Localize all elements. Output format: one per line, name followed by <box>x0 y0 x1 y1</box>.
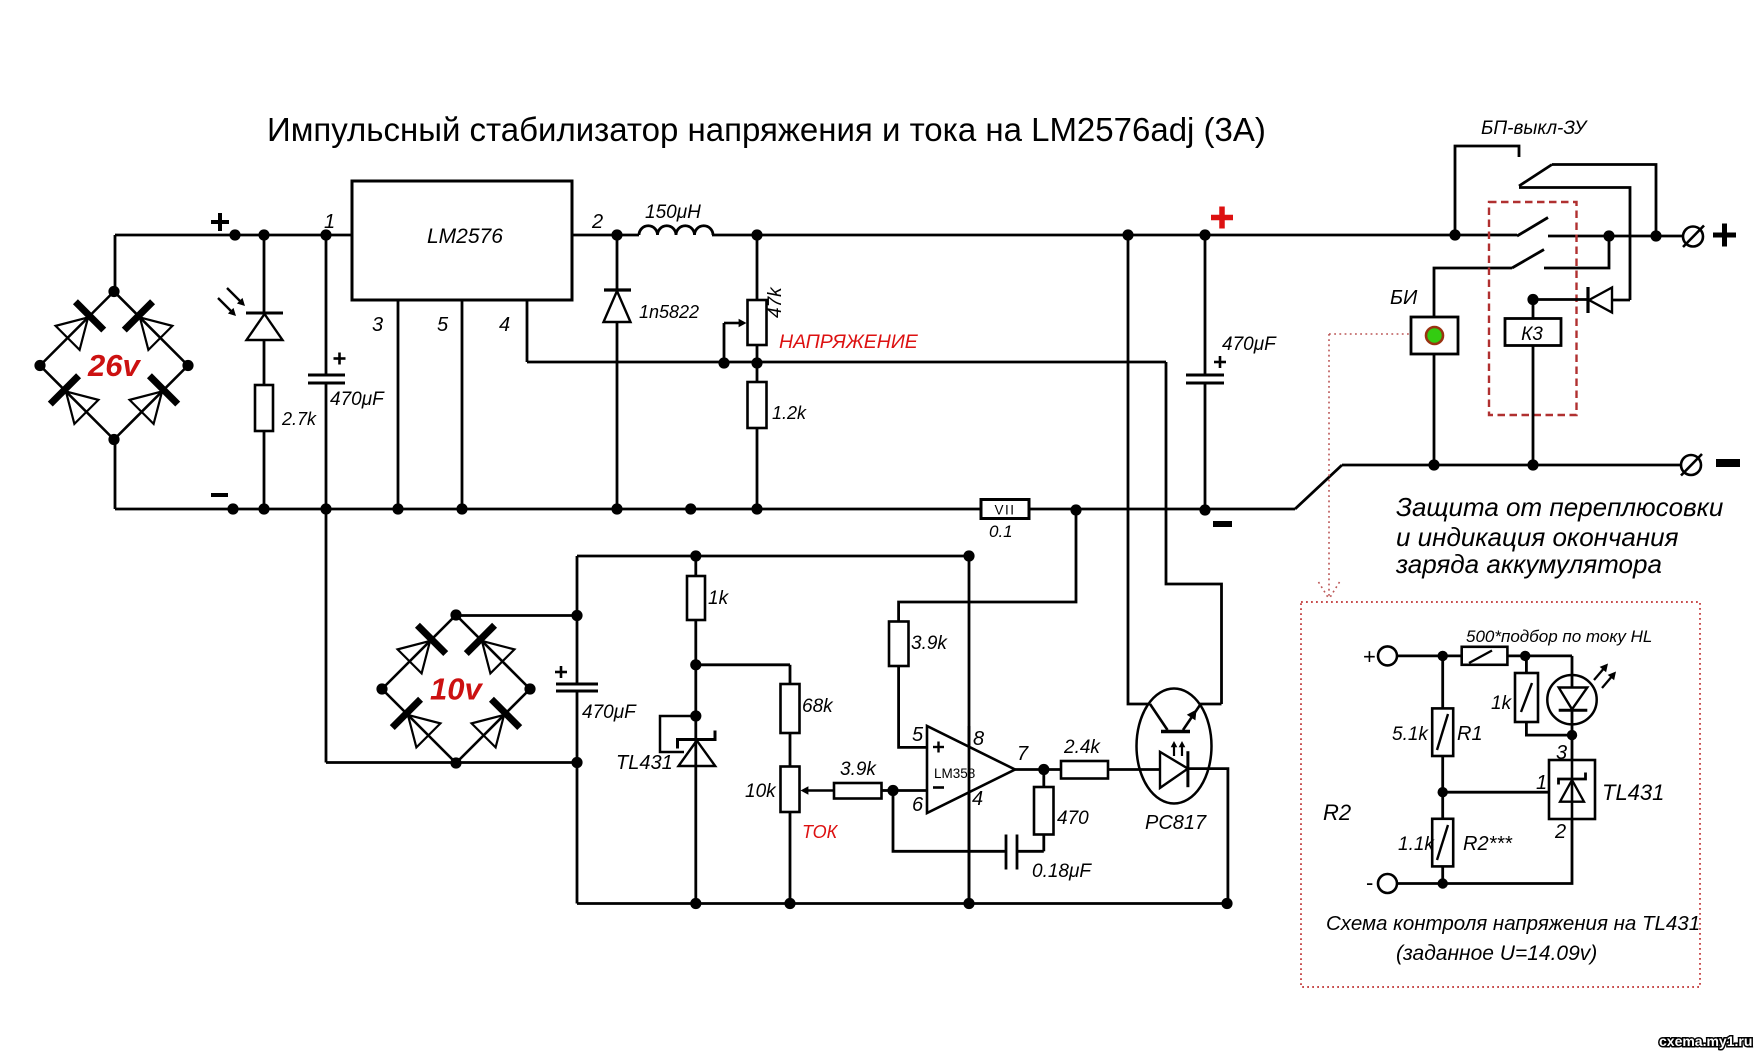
wire node to R1 <box>1441 656 1444 709</box>
svg-text:1: 1 <box>1536 772 1547 794</box>
svg-text:заряда аккумулятора: заряда аккумулятора <box>1395 549 1662 579</box>
svg-text:Защита от переплюсовки: Защита от переплюсовки <box>1396 492 1723 522</box>
wire diode D1 top <box>616 235 619 290</box>
wire pot branch top <box>756 235 759 300</box>
svg-text:2.7k: 2.7k <box>281 409 317 429</box>
svg-text:2: 2 <box>591 211 603 233</box>
wire S1c left to БИ <box>1434 268 1512 317</box>
svg-text:R2: R2 <box>1323 800 1351 825</box>
svg-text:68k: 68k <box>802 696 834 717</box>
terminal - subcircuit <box>1378 874 1397 893</box>
TL431 U4 symbol <box>1571 760 1574 819</box>
opto light arrows <box>1173 744 1175 756</box>
svg-text:0.1: 0.1 <box>989 522 1013 541</box>
svg-text:5.1k: 5.1k <box>1392 724 1429 745</box>
bridge BR1 diode bottom-right <box>149 376 177 404</box>
opto transistor collector <box>1150 704 1168 730</box>
resistor R 2.7k <box>255 385 273 431</box>
label red + output bus <box>1211 215 1233 221</box>
wire opamp supply vertical <box>968 556 971 904</box>
op-amp U2 LM358 triangle <box>927 726 1015 813</box>
resistor 500 selected <box>1462 647 1508 665</box>
wire LED branch top <box>263 235 266 313</box>
svg-text:470μF: 470μF <box>330 389 385 410</box>
diode D2 relay <box>1586 287 1589 313</box>
wire 500 to node2 <box>1507 655 1572 658</box>
svg-text:3.9k: 3.9k <box>840 759 877 780</box>
red dashed relay box <box>1489 202 1577 415</box>
svg-text:LM2576: LM2576 <box>427 225 503 248</box>
svg-text:26v: 26v <box>87 348 141 383</box>
wire 470 bottom <box>1042 835 1045 852</box>
svg-text:8: 8 <box>973 728 984 750</box>
LED HL symbol <box>1571 656 1574 688</box>
wire bridge2 top rail <box>456 614 577 617</box>
bridge BR1 vertex dots <box>108 286 119 297</box>
svg-text:4: 4 <box>972 788 983 810</box>
capacitor C4 0.18uF <box>1005 835 1008 870</box>
wire opto LED cathode down <box>1188 769 1228 904</box>
switch S1a blade <box>1519 165 1552 187</box>
svg-text:2: 2 <box>1554 821 1566 843</box>
wire feedback horizontal <box>527 361 1166 364</box>
wire pot bottom <box>789 812 792 904</box>
svg-text:6: 6 <box>912 794 924 816</box>
wire left vertical upper <box>576 556 579 684</box>
wire + bus segment B pin2 to inductor <box>572 234 639 237</box>
resistor 1k <box>687 576 705 620</box>
wire K3 bottom to - line <box>1532 346 1535 466</box>
optocoupler U3 PC817 ellipse <box>1137 689 1212 804</box>
svg-text:cxema.my1.ru: cxema.my1.ru <box>1659 1033 1752 1049</box>
wire 1k top <box>694 556 697 576</box>
opto LED triangle <box>1160 752 1188 788</box>
capacitor C3 470uF plates <box>556 683 598 686</box>
wire R1 to R2 <box>1441 756 1444 819</box>
label black - under bus <box>1213 521 1232 527</box>
resistor R2 1.1k <box>1432 819 1453 867</box>
wire wiper down <box>723 323 726 363</box>
wire - bus after shunt <box>1029 508 1295 511</box>
wire - output line <box>1342 464 1681 467</box>
wire pin1 to divider <box>1443 791 1549 794</box>
LED HL1 indicator <box>246 312 283 315</box>
svg-text:1.1k: 1.1k <box>1398 834 1435 855</box>
svg-text:5: 5 <box>912 724 924 746</box>
resistor 3.9k horizontal <box>834 783 882 799</box>
LED HL1 arrows <box>227 288 243 304</box>
svg-text:LM358: LM358 <box>934 766 975 781</box>
opto LED cathode bar <box>1186 751 1189 787</box>
TL431 reference bracket <box>660 716 696 752</box>
opto transistor emitter with arrow <box>1183 705 1200 730</box>
wire 1.2k to - bus <box>756 428 759 509</box>
svg-text:TL431: TL431 <box>1602 780 1664 805</box>
LED HL circle <box>1547 675 1596 724</box>
wire opto emitter <box>1199 703 1222 706</box>
wire 1k bottom <box>694 620 697 665</box>
wire 3.9k to pin5 <box>899 666 927 747</box>
wire 2.4k to opto LED <box>1108 768 1160 771</box>
wire opamp output <box>1015 768 1061 771</box>
wire + bus top segment A <box>115 234 352 237</box>
resistor 3.9k vertical <box>889 622 909 667</box>
IC U1 LM2576 box <box>352 181 572 300</box>
wire + bus segment C inductor to switch <box>712 234 1517 237</box>
bridge BR1 diode top-right <box>124 302 152 330</box>
wire opto collector from + bus <box>1128 235 1150 704</box>
wire pin 5 to - bus <box>461 300 464 509</box>
svg-text:1.2k: 1.2k <box>772 403 807 423</box>
wire lower neg rail to bridge <box>326 761 456 764</box>
switch S1b blade on bus <box>1517 218 1548 237</box>
wire feedback to opto emitter jog <box>1166 362 1222 704</box>
bridge BR2 vertex dots <box>450 609 461 620</box>
wire 3.9k to pin6 node <box>882 789 894 792</box>
junction dots relay area <box>1527 294 1538 305</box>
LED HL emission arrows <box>1594 667 1606 681</box>
wire output cap bottom <box>1204 383 1207 510</box>
wire left vertical lower <box>576 691 579 904</box>
label - input <box>933 786 944 789</box>
bridge BR2 diode bottom-left <box>392 699 420 727</box>
bridge BR1 diode bottom-left <box>50 376 78 404</box>
wire + bus segment D switch to + terminal <box>1548 235 1684 238</box>
svg-text:1k: 1k <box>1491 693 1513 714</box>
resistor R1 5.1k <box>1432 708 1453 756</box>
svg-text:10v: 10v <box>430 672 483 707</box>
svg-text:470μF: 470μF <box>1222 334 1277 355</box>
TL431 zener bar <box>678 731 716 749</box>
svg-text:0.18μF: 0.18μF <box>1032 861 1092 882</box>
wire 2.7k to - bus <box>263 431 266 509</box>
svg-text:470μF: 470μF <box>582 702 637 723</box>
switch S1c lower blade <box>1512 250 1544 269</box>
wire R2 to - node <box>1441 866 1444 883</box>
junction dots lower rails <box>571 610 582 621</box>
svg-text:150μH: 150μH <box>645 202 701 223</box>
wire LED to TL431 pin3 <box>1571 735 1574 760</box>
bridge BR2 diode top-left <box>417 625 445 653</box>
svg-text:2.4k: 2.4k <box>1063 737 1101 758</box>
wire bridge2 bottom rail to cap <box>456 761 577 764</box>
wire bottom rail <box>577 902 1227 905</box>
wire S1a pole to relay diode <box>1519 188 1630 301</box>
svg-text:4: 4 <box>499 314 510 336</box>
junction dots subcircuit <box>1438 651 1448 661</box>
svg-text:К3: К3 <box>1521 324 1543 345</box>
shunt resistor VII 0.1 <box>981 500 1029 519</box>
wire 1k junction to 68k <box>696 663 790 666</box>
wire output cap branch <box>1204 235 1207 375</box>
terminal + subcircuit <box>1378 646 1397 665</box>
svg-text:Схема контроля напряжения на T: Схема контроля напряжения на TL431 <box>1326 912 1700 935</box>
wire + to node <box>1397 655 1462 658</box>
label + input <box>933 746 944 748</box>
resistor 1k selected <box>1515 673 1538 722</box>
svg-text:47k: 47k <box>765 286 786 318</box>
resistor 2.4k <box>1061 761 1108 779</box>
svg-text:3.9k: 3.9k <box>911 633 948 654</box>
svg-text:7: 7 <box>1017 743 1029 765</box>
svg-text:НАПРЯЖЕНИЕ: НАПРЯЖЕНИЕ <box>779 331 919 353</box>
bridge BR1 diode top-left <box>75 302 103 330</box>
svg-text:10k: 10k <box>745 781 777 802</box>
junction dots feedback line <box>718 357 729 368</box>
capacitor C2 470uF output plates <box>1186 374 1224 377</box>
TL431 triangle <box>679 741 716 767</box>
wire TL431 pin2 down <box>1443 819 1572 884</box>
svg-text:PC817: PC817 <box>1145 812 1207 834</box>
svg-text:и индикация окончания: и индикация окончания <box>1396 522 1679 552</box>
terminal + circle <box>1683 227 1703 247</box>
wire БИ to - line <box>1433 354 1436 465</box>
resistor 1.2k <box>756 363 759 382</box>
wire pin 4 feedback down <box>526 300 529 362</box>
red dotted link БИ to subcircuit <box>1329 333 1411 335</box>
label - polarity bottom left <box>211 493 228 497</box>
wire 470 top <box>1042 770 1045 788</box>
svg-text:1k: 1k <box>708 588 730 609</box>
bridge rectifier BR2 - edges <box>382 615 456 689</box>
label big - output <box>1716 459 1740 467</box>
svg-text:(заданное U=14.09v): (заданное U=14.09v) <box>1396 942 1597 965</box>
resistor 68k <box>789 665 792 684</box>
label + of C1 <box>334 357 346 360</box>
svg-text:Импульсный стабилизатор напряж: Импульсный стабилизатор напряжения и ток… <box>267 111 1266 148</box>
potentiometer 47k <box>748 300 767 345</box>
svg-text:ТОК: ТОК <box>802 822 839 842</box>
wire K3 top <box>1532 300 1535 319</box>
relay K3 box <box>1505 319 1561 346</box>
label + of C2 <box>1214 361 1226 364</box>
svg-text:БП-выкл-ЗУ: БП-выкл-ЗУ <box>1481 118 1588 139</box>
wire S1c right contact to bus <box>1544 236 1609 268</box>
svg-text:5: 5 <box>437 314 449 336</box>
indicator БИ green lamp <box>1426 327 1443 344</box>
bridge rectifier BR1 - edges <box>40 292 114 366</box>
wire - bus main <box>115 508 981 511</box>
wire - output diagonal <box>1295 465 1342 509</box>
wire pot to junction <box>756 345 759 363</box>
svg-text:1n5822: 1n5822 <box>639 302 699 322</box>
svg-text:470: 470 <box>1057 808 1089 829</box>
wire bridge 26v bottom riser <box>114 439 117 509</box>
wire 68k to pot <box>789 733 792 767</box>
red dotted subcircuit box <box>1301 602 1700 987</box>
junction dots + bus <box>229 229 240 240</box>
terminal - circle <box>1681 455 1701 475</box>
svg-text:500*подбор по току HL: 500*подбор по току HL <box>1466 627 1652 646</box>
wire K3 node to diode <box>1533 298 1588 301</box>
wire pin6 node to opamp <box>893 789 927 792</box>
indicator БИ box <box>1411 317 1458 354</box>
label + of C3 <box>555 671 567 674</box>
wire node2 to 1k <box>1525 656 1528 673</box>
inductor L1 150uH <box>639 226 713 235</box>
svg-text:TL431: TL431 <box>616 752 673 774</box>
svg-text:R2***: R2*** <box>1463 833 1513 855</box>
label big + output <box>1713 233 1736 238</box>
wire switch feed stub <box>1455 146 1519 235</box>
svg-text:БИ: БИ <box>1390 287 1418 309</box>
wire TL431 cathode <box>694 665 697 904</box>
wire pin 3 to - bus <box>397 300 400 509</box>
junction dots - bus <box>227 503 238 514</box>
svg-text:3: 3 <box>372 314 383 336</box>
wire top supply rail <box>577 555 969 558</box>
svg-text:R1: R1 <box>1457 723 1483 745</box>
resistor 470 <box>1034 787 1054 835</box>
wire diode D1 bottom <box>616 322 619 509</box>
diode D1 1n5822 <box>604 288 631 291</box>
bridge BR2 diode bottom-right <box>491 699 519 727</box>
wire capacitor C1 bottom <box>325 383 328 509</box>
wire pin6 jog to cap <box>893 791 1006 852</box>
wire capacitor C1 branch top <box>325 235 328 375</box>
svg-text:VII: VII <box>994 503 1015 518</box>
label + polarity top left <box>211 220 229 224</box>
wire sense from shunt <box>899 510 1076 622</box>
wire - to node <box>1397 882 1443 885</box>
wire bridge 26v top riser <box>114 235 117 292</box>
bridge BR2 diode top-right <box>466 625 494 653</box>
wire LED to resistor 2.7k <box>263 340 266 385</box>
TL431 U4 box <box>1549 760 1595 819</box>
pot 10k wiper arrow <box>806 789 840 792</box>
potentiometer 10k <box>781 767 800 813</box>
opto transistor base bar <box>1161 730 1190 733</box>
capacitor C1 470uF plates <box>308 374 345 377</box>
junction dots opamp area <box>887 785 898 796</box>
svg-text:-: - <box>1366 870 1373 895</box>
wire lower neg riser from - bus <box>325 509 328 763</box>
wire S1a contact to + terminal node <box>1552 165 1656 237</box>
wire 1k bottom jog <box>1526 722 1572 735</box>
pot wiper arrow <box>724 322 740 325</box>
svg-text:+: + <box>1363 644 1376 669</box>
